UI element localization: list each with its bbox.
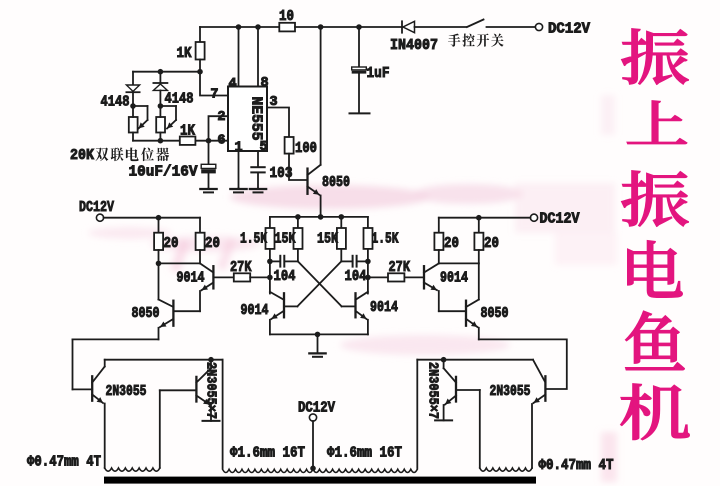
potentiometer RP1a 20K body	[129, 106, 138, 141]
svg-text:4: 4	[229, 77, 237, 92]
svg-text:3: 3	[270, 95, 278, 110]
potentiometer RP1a wiper arm	[133, 106, 148, 129]
capacitor C1 1uF from top rail	[350, 27, 390, 113]
svg-text:5: 5	[260, 140, 268, 155]
label 4148 for D3	[165, 91, 194, 108]
transistor Q6 9014 mv-left (mirrored)	[241, 292, 298, 335]
op-amp/timer U1 NE555 box	[228, 87, 267, 152]
svg-text:6: 6	[217, 134, 225, 149]
ground of multivibrator	[309, 334, 325, 356]
winding T2a primary 16T	[223, 469, 313, 472]
svg-text:104: 104	[274, 268, 296, 285]
resistor R4 20 left-a	[154, 218, 178, 264]
node junction at D3 bottom	[158, 103, 164, 109]
wire base lead Q9	[160, 389, 197, 391]
svg-text:10: 10	[279, 8, 294, 25]
label 2N3055x7 right (vertical)	[425, 362, 441, 419]
wire 1K-2 to NE555 pin 6	[195, 140, 228, 142]
node junction left collector rail	[208, 357, 214, 363]
terminal DC12V top right	[535, 21, 590, 38]
capacitor C5 104 right	[341, 256, 368, 285]
svg-text:2N3055×7: 2N3055×7	[203, 362, 219, 419]
node junctions on mv rail	[295, 214, 344, 220]
wire feedback to Q9 base	[159, 390, 161, 468]
svg-text:20: 20	[205, 235, 220, 252]
node junction at 1K bottom / diode rail / pin7 feed	[197, 69, 203, 75]
svg-text:1uF: 1uF	[367, 65, 390, 82]
svg-text:Φ0.47mm 4T: Φ0.47mm 4T	[539, 458, 614, 474]
svg-text:104: 104	[345, 268, 367, 285]
banner char 上 (2)	[627, 101, 686, 144]
svg-text:DC12V: DC12V	[548, 21, 590, 38]
resistor R5 20 left-b	[196, 218, 220, 264]
winding T3 feedback 4T right	[480, 468, 532, 471]
diode D3 4148 right (cathode top)	[153, 72, 167, 106]
capacitor C4 104 left	[270, 256, 298, 285]
switch S1 manual control (手控开关)	[467, 20, 535, 28]
resistor R10 1.5K	[240, 217, 275, 249]
svg-text:9014: 9014	[177, 271, 205, 287]
pin 1 lead of U1 to ground	[235, 141, 243, 189]
potentiometer RP1b 20K body	[156, 106, 165, 141]
banner char 鱼 (5)	[626, 311, 684, 369]
label winding T2a	[230, 446, 305, 462]
resistor R1 1K vertical at left of NE555	[177, 27, 205, 72]
resistor R9 27K right	[368, 259, 424, 282]
node junction diode rail at D3	[158, 69, 164, 75]
wire cross-couple R11/C4 to Q7 base	[298, 261, 342, 306]
wire right collector rail	[439, 262, 479, 264]
pin 5 lead of U1	[258, 140, 268, 166]
node junctions left branch (C4, 27K)	[267, 259, 273, 281]
label 2N3055x7 left (vertical)	[203, 362, 219, 419]
wire left collector rail	[159, 262, 201, 264]
resistor 10 (10 ohm) on top rail	[279, 8, 295, 31]
svg-text:20: 20	[484, 235, 499, 252]
pin 4 lead of U1	[229, 27, 239, 92]
svg-text:2N3055×7: 2N3055×7	[425, 362, 441, 419]
pin 7 lead of U1	[200, 72, 228, 103]
wire cross-couple R12/C5 to Q6 base	[297, 261, 341, 306]
capacitor C2 103 on pin 5	[251, 165, 292, 189]
svg-text:2N3055: 2N3055	[490, 384, 531, 400]
terminal DC12V right	[530, 211, 579, 228]
pin 8 lead of U1	[258, 27, 269, 91]
svg-text:9014: 9014	[241, 303, 269, 319]
node junction right supply at R8	[476, 215, 482, 221]
svg-text:9014: 9014	[370, 300, 398, 316]
resistor R7 20 right-a	[434, 218, 459, 264]
transistor Q7 9014 mv-right	[342, 292, 399, 335]
resistor R11 15K	[275, 217, 303, 249]
transistor Q1 8050 (NPN, driver)	[308, 27, 351, 217]
node junction pin6/pin2/10uF	[206, 138, 212, 144]
svg-text:4148: 4148	[165, 91, 194, 108]
wire left supply to 20-20 resistors	[104, 217, 200, 219]
ground below C2 103	[250, 189, 266, 193]
svg-text:20: 20	[164, 235, 179, 252]
transformer core bar	[104, 477, 536, 484]
svg-text:4148: 4148	[101, 94, 130, 111]
svg-text:2N3055: 2N3055	[106, 384, 147, 400]
svg-text:9014: 9014	[440, 271, 468, 287]
svg-text:15K: 15K	[317, 231, 338, 248]
transistor Q5 8050 right	[466, 300, 509, 340]
winding T2b primary 16T	[313, 469, 417, 472]
wire rail down from T2 right end	[416, 360, 418, 468]
diode D2 4148 left (anode top)	[126, 72, 139, 106]
node junction at R4 bottom	[156, 261, 162, 267]
svg-text:20: 20	[444, 235, 459, 252]
wire from IN4007 to switch contact	[415, 26, 467, 28]
winding T1 feedback 4T left	[105, 468, 160, 471]
node junction left supply at R4	[156, 215, 162, 221]
svg-text:27K: 27K	[230, 259, 252, 276]
wire R12 down to C5	[340, 249, 342, 262]
svg-text:Φ1.6mm 16T: Φ1.6mm 16T	[230, 446, 305, 462]
resistor R3 100 from pin 3	[285, 137, 317, 157]
svg-text:2: 2	[217, 110, 225, 125]
resistor R8 20 right-b	[474, 218, 499, 264]
wire Q3 emitter to output stage left	[73, 339, 159, 389]
node junction at D2 bottom	[130, 103, 136, 109]
wire right supply to 20-20 resistors	[439, 217, 531, 219]
pin 3 lead of U1	[267, 95, 289, 137]
banner char 振 (3)	[622, 171, 688, 226]
ground below C3 10uF	[200, 189, 216, 193]
wire R13 down right branch	[367, 249, 369, 294]
pin 2 lead of U1	[209, 110, 229, 141]
resistor R12 15K	[317, 217, 346, 249]
banner char 机 (6)	[621, 384, 689, 440]
transistor Q8 2N3055 left	[92, 360, 146, 468]
svg-text:10uF/16V: 10uF/16V	[129, 164, 198, 181]
label winding T2b	[327, 446, 402, 462]
wire right collector rail	[417, 359, 533, 361]
svg-text:8050: 8050	[481, 306, 509, 322]
svg-text:1K: 1K	[177, 45, 192, 62]
wire mv top rail	[270, 216, 368, 218]
svg-text:1.5K: 1.5K	[240, 231, 267, 248]
svg-text:NE555: NE555	[248, 97, 264, 141]
wire top rail from 10-ohm to IN4007 anode	[295, 26, 402, 28]
svg-text:8050: 8050	[132, 306, 160, 322]
terminal DC12V left	[79, 199, 114, 221]
node junction dots on top rail (pins 4,8 drops, 8050 collector, 1uF)	[236, 24, 362, 30]
svg-text:1: 1	[235, 141, 243, 156]
svg-text:8: 8	[261, 76, 269, 91]
wire R11 down to C4	[297, 249, 299, 262]
resistor R2 1K horizontal into pin 6	[180, 123, 196, 145]
capacitor C3 10uF/16V on pins 2-6	[201, 141, 216, 189]
wire top supply rail from 1K to 10-ohm resistor	[200, 26, 279, 28]
wire R10 down left branch	[269, 249, 271, 294]
svg-text:DC12V: DC12V	[79, 199, 114, 216]
svg-text:7: 7	[210, 88, 218, 103]
transistor Q11 2N3055 right (mirrored)	[490, 360, 546, 468]
wire pin3/100 to Q1 base	[289, 154, 308, 180]
svg-text:IN4007: IN4007	[390, 37, 438, 54]
transistor Q2 9014 left (mirrored)	[173, 263, 213, 311]
wire pot bottom rail to 1K-2	[133, 140, 180, 142]
resistor R6 27K left	[213, 259, 270, 282]
transistor Q9 2N3055x7 left	[196, 360, 219, 421]
terminal DC12V bottom center-tap	[298, 400, 335, 472]
wire base feed left 2N3055	[73, 388, 93, 390]
wire Q5 emitter detour to output stage right	[479, 339, 567, 389]
transistor Q3 8050 left (mirrored)	[132, 300, 174, 340]
banner char 振 (1)	[622, 29, 688, 84]
label 手控开关 for switch	[448, 33, 504, 46]
label 4148 for D2	[101, 94, 130, 111]
transistor Q4 9014 right	[424, 263, 468, 311]
wire R8 down to Q5 collector	[478, 263, 480, 299]
svg-text:Φ0.47mm 4T: Φ0.47mm 4T	[27, 455, 101, 471]
node junctions right branch (C5, 27K)	[365, 259, 371, 281]
label winding T3	[539, 458, 614, 474]
svg-text:27K: 27K	[389, 259, 411, 276]
wire R4 node down to Q3 collector	[158, 263, 160, 299]
transistor Q10 2N3055x7 right (mirrored)	[435, 360, 480, 421]
label 20K双联电位器	[70, 147, 169, 164]
svg-text:20K: 20K	[70, 148, 94, 164]
wire mv emitter rail	[270, 333, 368, 335]
diode D1 IN4007	[390, 21, 438, 54]
svg-text:Φ1.6mm 16T: Φ1.6mm 16T	[327, 446, 402, 462]
label winding T1	[27, 455, 101, 471]
label 10uF/16V	[129, 164, 198, 181]
svg-text:DC12V: DC12V	[540, 211, 580, 228]
wire left collector rail	[105, 359, 223, 361]
resistor R13 1.5K	[364, 217, 399, 249]
wire diode rail to 1K node	[133, 71, 200, 73]
svg-text:15K: 15K	[275, 231, 296, 248]
node junction pot rail	[158, 138, 164, 144]
node junction mv emitter rail	[315, 332, 321, 338]
ground below pin 1	[230, 188, 246, 192]
svg-text:100: 100	[295, 140, 317, 157]
svg-text:DC12V: DC12V	[298, 400, 335, 417]
wire feedback to Q10 base	[479, 390, 481, 468]
potentiometer RP1b wiper arm	[160, 106, 176, 129]
svg-text:1K: 1K	[180, 123, 195, 140]
pin 6 label of U1	[217, 134, 225, 149]
svg-text:8050: 8050	[322, 175, 350, 191]
svg-text:1.5K: 1.5K	[372, 231, 399, 248]
banner char 电 (4)	[628, 241, 682, 297]
wire rail down to winding T2 left end	[222, 360, 224, 468]
node junction right collector rail	[441, 357, 447, 363]
